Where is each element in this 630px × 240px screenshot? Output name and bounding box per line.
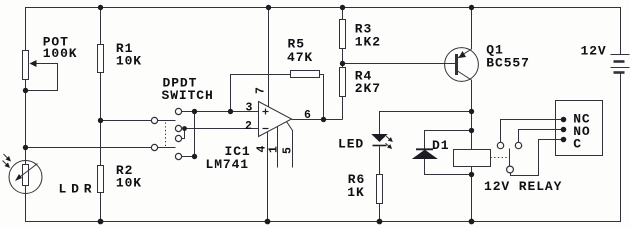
- svg-text:100K: 100K: [43, 46, 78, 61]
- svg-text:LED: LED: [338, 137, 364, 152]
- svg-text:12V RELAY: 12V RELAY: [484, 179, 562, 194]
- svg-text:2: 2: [245, 120, 252, 133]
- svg-text:6: 6: [304, 109, 311, 122]
- svg-text:7: 7: [255, 87, 268, 94]
- svg-text:47K: 47K: [287, 50, 313, 65]
- svg-text:C: C: [573, 136, 582, 151]
- svg-text:D1: D1: [432, 138, 449, 153]
- svg-text:1: 1: [267, 146, 280, 153]
- svg-text:1K: 1K: [347, 185, 364, 200]
- svg-text:SWITCH: SWITCH: [162, 88, 214, 103]
- svg-text:1K2: 1K2: [355, 35, 381, 50]
- svg-text:BC557: BC557: [486, 56, 530, 71]
- svg-text:3: 3: [246, 102, 253, 115]
- svg-text:2K7: 2K7: [355, 81, 381, 96]
- svg-text:5: 5: [281, 147, 294, 154]
- svg-text:LDR: LDR: [59, 182, 97, 197]
- svg-text:LM741: LM741: [206, 157, 250, 172]
- svg-text:10K: 10K: [116, 54, 142, 69]
- svg-text:R5: R5: [288, 36, 305, 51]
- svg-text:10K: 10K: [116, 176, 142, 191]
- svg-text:12V: 12V: [581, 44, 607, 59]
